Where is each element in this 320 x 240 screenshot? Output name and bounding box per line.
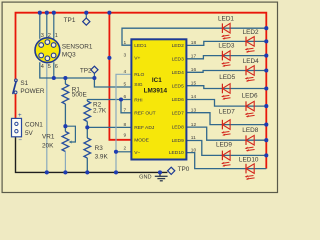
svg-text:V−: V− xyxy=(134,150,140,156)
svg-text:LED10: LED10 xyxy=(239,157,259,164)
svg-text:LED4: LED4 xyxy=(243,58,259,65)
svg-text:4: 4 xyxy=(41,64,44,70)
svg-text:TP2: TP2 xyxy=(80,68,92,75)
svg-text:4: 4 xyxy=(124,69,127,75)
svg-text:POWER: POWER xyxy=(20,88,45,95)
svg-text:5V: 5V xyxy=(25,130,34,137)
svg-text:LED8: LED8 xyxy=(242,127,258,134)
svg-text:8: 8 xyxy=(124,122,127,128)
svg-text:SENSOR1: SENSOR1 xyxy=(62,43,93,50)
svg-text:500E: 500E xyxy=(72,92,87,99)
svg-text:1: 1 xyxy=(55,33,58,39)
svg-text:5: 5 xyxy=(124,82,127,88)
svg-text:+: + xyxy=(18,112,22,119)
svg-text:11: 11 xyxy=(191,135,196,141)
svg-text:3: 3 xyxy=(124,53,127,59)
svg-text:LED9: LED9 xyxy=(172,138,185,144)
svg-text:S1: S1 xyxy=(20,80,28,87)
svg-text:TP0: TP0 xyxy=(178,166,190,173)
svg-text:6: 6 xyxy=(124,94,127,100)
svg-text:LED2: LED2 xyxy=(243,29,259,36)
svg-text:R3: R3 xyxy=(95,145,104,152)
svg-text:6: 6 xyxy=(55,64,58,70)
svg-text:LED5: LED5 xyxy=(219,74,235,81)
svg-text:2: 2 xyxy=(124,146,127,152)
svg-text:LED9: LED9 xyxy=(216,142,232,149)
svg-text:SIG: SIG xyxy=(134,82,143,88)
svg-text:MODE: MODE xyxy=(134,138,149,144)
svg-text:LED3: LED3 xyxy=(172,56,185,62)
svg-text:14: 14 xyxy=(191,94,197,100)
svg-text:REF OUT: REF OUT xyxy=(134,111,155,117)
svg-text:9: 9 xyxy=(124,132,127,138)
svg-text:V+: V+ xyxy=(134,56,140,62)
svg-text:7: 7 xyxy=(124,107,127,113)
svg-text:−: − xyxy=(18,137,22,144)
svg-text:LED8: LED8 xyxy=(172,125,185,131)
svg-text:17: 17 xyxy=(191,54,197,60)
svg-text:IC1: IC1 xyxy=(152,77,162,84)
svg-text:REF ADJ: REF ADJ xyxy=(134,125,155,131)
svg-text:TP1: TP1 xyxy=(64,17,76,24)
svg-text:1: 1 xyxy=(124,40,127,46)
svg-text:2.7K: 2.7K xyxy=(93,107,107,114)
svg-text:GND: GND xyxy=(139,174,151,180)
svg-text:16: 16 xyxy=(191,67,197,73)
svg-text:MQ3: MQ3 xyxy=(62,52,76,59)
svg-text:LED1: LED1 xyxy=(134,43,147,49)
svg-text:LED6: LED6 xyxy=(172,97,185,103)
svg-text:LED5: LED5 xyxy=(172,83,185,89)
svg-text:LED7: LED7 xyxy=(219,109,235,116)
svg-text:LED3: LED3 xyxy=(218,43,234,50)
svg-text:10: 10 xyxy=(191,147,197,153)
svg-text:CON1: CON1 xyxy=(25,122,43,129)
svg-text:VR1: VR1 xyxy=(42,133,55,140)
svg-text:15: 15 xyxy=(191,80,197,86)
svg-text:2: 2 xyxy=(48,33,51,39)
svg-text:12: 12 xyxy=(191,122,197,128)
svg-text:3.9K: 3.9K xyxy=(95,154,109,161)
svg-text:LM3914: LM3914 xyxy=(144,88,168,95)
svg-text:LED2: LED2 xyxy=(172,43,185,49)
svg-text:LED7: LED7 xyxy=(172,110,185,116)
svg-text:20K: 20K xyxy=(42,142,54,149)
svg-text:RLO: RLO xyxy=(134,72,144,78)
svg-text:LED4: LED4 xyxy=(172,70,185,76)
svg-text:LED6: LED6 xyxy=(242,93,258,100)
svg-text:18: 18 xyxy=(191,40,197,46)
svg-text:3: 3 xyxy=(41,33,44,39)
svg-text:13: 13 xyxy=(191,107,197,113)
svg-text:5: 5 xyxy=(48,64,51,70)
svg-text:RHI: RHI xyxy=(134,97,142,103)
svg-text:LED10: LED10 xyxy=(169,150,184,156)
svg-text:LED1: LED1 xyxy=(218,16,234,23)
